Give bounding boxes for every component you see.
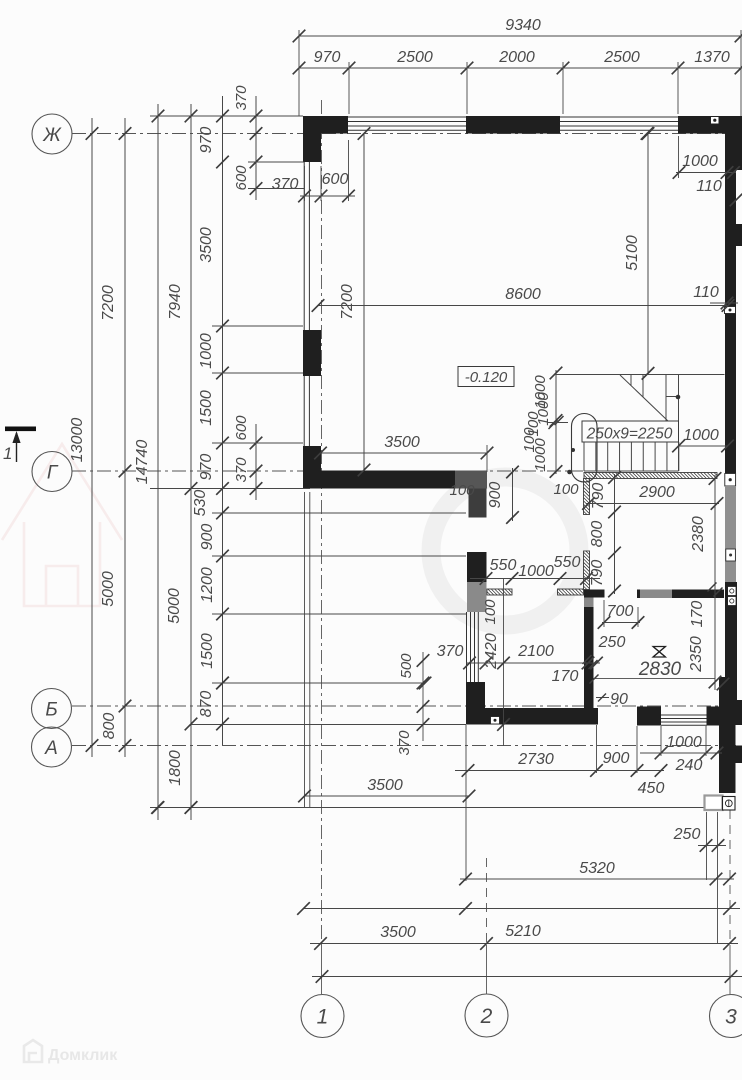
svg-text:790: 790 (590, 483, 607, 510)
svg-text:2900: 2900 (638, 484, 675, 501)
dim 500 370 vertical x423 (422, 652, 424, 741)
pier bottom x707 (707, 707, 720, 726)
svg-text:1: 1 (317, 1006, 329, 1029)
top dim extension lines (298, 30, 300, 116)
stair upper flight diagonal break (620, 375, 668, 421)
svg-text:870: 870 (198, 691, 215, 718)
grid axis column 1 dash-dot (321, 100, 323, 945)
grid axis row Ж dash-dot (72, 133, 742, 135)
stair lower flight risers (583, 442, 585, 471)
svg-text:450: 450 (638, 780, 665, 797)
svg-text:7200: 7200 (100, 285, 117, 321)
svg-text:110: 110 (693, 284, 719, 301)
right wall widen y677 (719, 677, 737, 700)
svg-text:1000: 1000 (532, 438, 549, 472)
svg-text:2830: 2830 (638, 659, 682, 680)
outlet symbol bottom wall (491, 717, 500, 725)
room line y678 (594, 678, 716, 680)
svg-text:970: 970 (314, 49, 341, 66)
grid axis row Г dash-dot (72, 470, 583, 472)
svg-text:2380: 2380 (690, 516, 707, 553)
dim chain x556 1000/100 cluster (555, 370, 557, 474)
dim chain 7200 5000 800 (124, 118, 126, 757)
fixture boxes bottom right (705, 796, 723, 811)
stair mid landing (665, 375, 667, 422)
grid axis row Б dash-dot (72, 705, 722, 707)
dim 9340 total top (299, 35, 741, 37)
ventilation symbol (653, 647, 666, 658)
svg-text:600: 600 (322, 171, 349, 188)
dim chain 13000 outer (91, 118, 93, 757)
svg-text:13000: 13000 (69, 418, 86, 463)
svg-text:Б: Б (45, 699, 57, 720)
svg-text:370: 370 (396, 730, 413, 756)
terrace line y614 (212, 613, 466, 615)
right wall strip upper (725, 170, 736, 224)
svg-text:1500: 1500 (198, 390, 215, 426)
svg-text:1000: 1000 (666, 734, 702, 751)
middle wall vertical grey top (584, 595, 594, 607)
grid axis column 3 dashed stem (729, 810, 731, 945)
dim 2420 vertical line x503 (503, 579, 505, 747)
dim 1000 240 row near А (640, 752, 722, 754)
svg-text:2000: 2000 (498, 49, 535, 66)
wall top middle block (466, 116, 560, 134)
inner wall pier below Г (469, 489, 487, 518)
hatched wall strip vertical upper (584, 479, 590, 515)
svg-text:800: 800 (101, 713, 118, 740)
porch left edge verticals (304, 492, 306, 807)
svg-text:5000: 5000 (100, 571, 117, 607)
stair text box 250x9=2250 (582, 421, 679, 442)
svg-text:170: 170 (689, 601, 706, 628)
wall right corner block (725, 134, 742, 171)
svg-text:5000: 5000 (166, 588, 183, 624)
svg-text:2350: 2350 (688, 636, 705, 673)
svg-text:1000: 1000 (518, 563, 554, 580)
svg-text:800: 800 (589, 521, 606, 548)
hatched wall strip vertical lower (584, 551, 590, 590)
pier above row Б (466, 682, 485, 708)
svg-text:1000: 1000 (198, 333, 215, 369)
dim chain segments left inner (222, 96, 224, 745)
grid axis column 2 dashed stem (486, 858, 488, 945)
bubble axis Г (32, 452, 72, 492)
bubble axis Б (32, 689, 72, 729)
dim 5100 vertical (647, 134, 649, 374)
svg-text:3500: 3500 (380, 924, 416, 941)
svg-text:900: 900 (487, 482, 504, 509)
extension lines left chains (212, 325, 303, 327)
dim chain 7940 5000 1800 (190, 104, 192, 820)
fixture box right wall y307 (725, 307, 736, 314)
svg-text:1: 1 (3, 444, 12, 463)
window lower-left wall 4 lines (466, 612, 468, 684)
svg-text:2100: 2100 (517, 643, 554, 660)
watermark house logo left (2, 444, 122, 606)
stair upper flight risers (630, 375, 632, 386)
dim 8600 room width (318, 305, 728, 307)
bubble axis 1 (301, 995, 344, 1038)
wall top right block (678, 116, 742, 134)
porch outer line y807 (150, 807, 735, 809)
window left wall upper 2 lines (303, 162, 305, 330)
svg-text:100: 100 (553, 481, 579, 498)
svg-text:-0.120: -0.120 (465, 369, 508, 386)
dim 1000 110 top right (676, 172, 736, 174)
dim row 970 2500 2000 2500 1370 (299, 67, 741, 69)
inner wall pier grey part (467, 582, 487, 612)
window top-right 4 lines (560, 116, 678, 118)
svg-text:970: 970 (198, 127, 215, 154)
right wall strip lower (725, 582, 737, 677)
svg-text:600: 600 (233, 165, 250, 191)
tick on axis Ж at x647 (641, 127, 654, 140)
svg-text:8600: 8600 (505, 286, 541, 303)
hatched wall strip along stairs bottom (584, 473, 717, 479)
svg-text:7200: 7200 (339, 284, 356, 320)
svg-text:1500: 1500 (199, 633, 216, 669)
svg-text:100: 100 (449, 482, 475, 499)
svg-text:1200: 1200 (199, 567, 216, 603)
svg-text:А: А (44, 738, 58, 759)
middle wall vertical x584 (584, 595, 594, 708)
stair walk line loop (572, 414, 598, 483)
svg-text:14740: 14740 (134, 440, 151, 485)
svg-text:9340: 9340 (505, 17, 541, 34)
svg-text:2730: 2730 (517, 751, 554, 768)
svg-text:1370: 1370 (694, 49, 730, 66)
bubble axis 3 (710, 995, 742, 1038)
outlet box right wall at Г (725, 474, 736, 487)
svg-text:5100: 5100 (624, 235, 641, 271)
dim sub-chain 600 370 at Г (255, 424, 257, 500)
fixture box right wall y549 (726, 549, 736, 561)
terrace line y683 with ticks (212, 682, 425, 684)
bubble axis 2 (465, 994, 508, 1037)
terrace line y724 (190, 724, 466, 726)
svg-text:3: 3 (725, 1006, 737, 1029)
svg-text:250х9=2250: 250х9=2250 (586, 426, 673, 443)
dim 3500 porch (304, 795, 469, 797)
riser symbols right wall (728, 587, 736, 596)
window top-left 4 lines (348, 116, 466, 118)
svg-text:970: 970 (198, 454, 215, 481)
svg-text:3500: 3500 (384, 434, 420, 451)
middle wall bar greyed by watermark (640, 590, 672, 599)
svg-text:370: 370 (233, 85, 250, 111)
terrace line y556 (212, 555, 466, 557)
hatched lintel x487 (487, 589, 512, 595)
dim 2730 900 row (455, 770, 664, 772)
middle wall bar right of door (637, 590, 724, 599)
svg-text:530: 530 (192, 490, 209, 517)
svg-text:370: 370 (272, 176, 299, 193)
dim 2100 row (466, 662, 600, 664)
terrace line y513 (212, 512, 466, 514)
svg-text:Г: Г (47, 462, 59, 483)
section mark 1 top-left (5, 427, 36, 432)
svg-text:370: 370 (437, 643, 464, 660)
svg-text:2500: 2500 (603, 49, 640, 66)
dim 2900 (586, 503, 719, 505)
bubble axis А (32, 727, 72, 767)
window left wall lower 2 lines (303, 376, 305, 446)
tick right wall y200 (730, 194, 742, 207)
right wall strip bottom (719, 725, 736, 793)
svg-text:2: 2 (480, 1005, 493, 1028)
dim 110 right wall mid (710, 302, 738, 304)
wall top corner pier (303, 116, 348, 134)
svg-text:110: 110 (696, 178, 722, 195)
left wall pier y330 (303, 330, 321, 376)
dim 3500 5210 bottom (310, 943, 738, 945)
svg-text:2500: 2500 (396, 49, 433, 66)
svg-text:Ж: Ж (42, 125, 62, 146)
hatched lintel x557 (558, 589, 584, 595)
right wall stub y224 (725, 224, 742, 246)
svg-text:100: 100 (482, 599, 499, 625)
svg-text:3500: 3500 (198, 227, 215, 263)
right wall strip (725, 246, 736, 473)
svg-text:170: 170 (552, 668, 579, 685)
extension lines bottom (660, 726, 662, 756)
outer wall face line extended left (150, 115, 303, 117)
dim 550 1000 550 row (470, 578, 600, 580)
watermark domclick logo bottom-left (24, 1040, 42, 1062)
right wall stub at row А (736, 746, 742, 764)
svg-text:900: 900 (199, 524, 216, 551)
middle wall bar left of door (584, 590, 605, 598)
grid axis row А dash-dot (72, 745, 736, 747)
dim chain 790 800 790 (614, 474, 616, 594)
svg-text:700: 700 (607, 603, 634, 620)
svg-text:550: 550 (554, 554, 581, 571)
bottom line y976 (312, 976, 742, 978)
watermark ring letter (431, 477, 579, 625)
svg-text:Домклик: Домклик (48, 1047, 118, 1064)
dim sub-chain 370 600 top (255, 96, 257, 200)
dim 3500 at Г (321, 452, 488, 454)
outlet symbol top wall (711, 117, 720, 125)
svg-text:3500: 3500 (367, 777, 403, 794)
inner wall pier y552 (467, 552, 487, 612)
dim 250 and 90 at wall x590 (583, 655, 592, 664)
pier bottom y706 x637 (637, 707, 661, 726)
bubble axis Ж (32, 114, 72, 154)
svg-text:90: 90 (610, 691, 628, 708)
dim chain 14740 (157, 104, 159, 820)
svg-text:7940: 7940 (167, 284, 184, 320)
right wall corner block y700 (719, 700, 742, 725)
svg-text:2420: 2420 (483, 633, 500, 670)
stair landing edge line (556, 374, 725, 376)
dim 5320 (460, 878, 734, 880)
line y908 (303, 908, 740, 910)
dim 250 right bottom (698, 845, 726, 847)
svg-text:1800: 1800 (167, 750, 184, 786)
wall bar bottom room (466, 708, 598, 725)
dim 700 door (602, 622, 640, 624)
svg-text:900: 900 (603, 750, 630, 767)
right wall greyed by watermark (725, 486, 736, 582)
left wall pier at Г (303, 446, 321, 472)
svg-text:250: 250 (673, 826, 701, 843)
svg-text:250: 250 (598, 634, 626, 651)
svg-text:1000: 1000 (683, 427, 719, 444)
level mark -0.120 box (458, 367, 514, 387)
window bottom wall 3 lines (661, 714, 707, 716)
svg-text:5210: 5210 (505, 923, 541, 940)
wall bar along Г greyed end (455, 471, 487, 489)
wall bar along Г (303, 471, 455, 489)
dim 370-600 top-left (300, 195, 355, 197)
svg-text:500: 500 (398, 653, 415, 679)
svg-text:240: 240 (675, 757, 703, 774)
dim 900 vertical (512, 468, 514, 521)
svg-text:370: 370 (233, 457, 250, 483)
dim 2380 / 170 / 2350 right chain (714, 475, 716, 690)
svg-text:1000: 1000 (682, 153, 718, 170)
svg-text:600: 600 (233, 415, 250, 441)
dim 7200 vertical inner (363, 134, 365, 472)
svg-text:550: 550 (490, 557, 517, 574)
dim 1000 stair landing (679, 445, 728, 447)
svg-text:5320: 5320 (579, 860, 615, 877)
